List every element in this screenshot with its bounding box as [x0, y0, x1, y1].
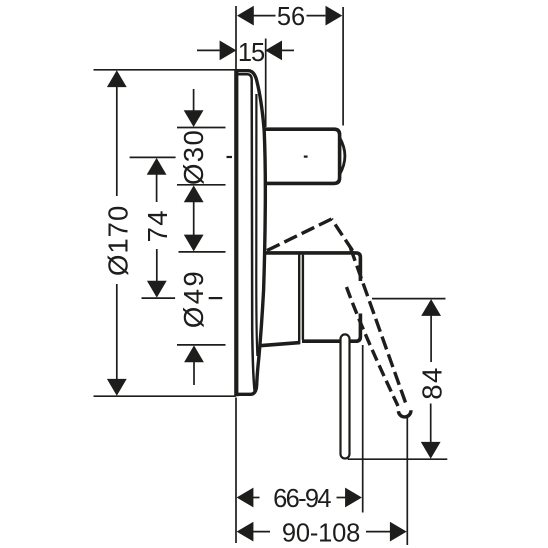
svg-text:74: 74	[142, 209, 173, 242]
dim Ø30: top extension line	[177, 127, 226, 129]
dim Ø49: top extension line	[179, 251, 226, 253]
dim Ø170: top arrowhead	[107, 70, 127, 87]
dim Ø170: bottom extension line	[94, 395, 236, 397]
dim 84: lower tail	[430, 404, 432, 443]
dim 56: right leader	[307, 15, 326, 17]
dim Ø49: top arrowhead (pointing down)	[184, 235, 204, 252]
dim Ø170: top extension line	[94, 69, 236, 71]
dim Ø30: bottom arrowhead (pointing up)	[184, 185, 204, 202]
dim 74: bottom arrowhead (pointing down)	[147, 281, 167, 298]
knob end-cap dome	[340, 138, 345, 175]
dashed lever: tilted hub right edge	[332, 219, 353, 251]
dim Ø49: bottom arrowhead (pointing up)	[184, 345, 204, 362]
svg-text:90-108: 90-108	[282, 519, 360, 547]
dim 84: upper tail	[430, 316, 432, 363]
dim 15: right leader	[282, 49, 294, 51]
dashed lever: tilted hub top edge	[267, 219, 332, 251]
hub top edge (handle body)	[262, 253, 360, 281]
dim 84: top arrowhead (pointing up)	[421, 299, 441, 316]
dim 90-108: right extension line	[406, 415, 408, 545]
escutcheon plate (side profile, wall plate)	[236, 71, 265, 395]
dashed lever: rounded tip	[398, 410, 411, 417]
dim Ø30: top arrowhead (pointing down)	[184, 110, 204, 127]
dim Ø30: bottom extension line	[177, 184, 226, 186]
dim 90-108: left leader	[253, 531, 270, 533]
plate inner plateau edge (top + front line)	[237, 74, 255, 391]
sleeve divider line 2	[302, 255, 304, 340]
dim 74: top extension line (knob centerline)	[130, 156, 176, 158]
svg-text:15: 15	[238, 39, 265, 67]
dim 90-108: right arrowhead	[390, 522, 407, 542]
dim 84: bottom extension line	[348, 458, 448, 460]
plate left face (wall side)	[234, 69, 238, 396]
dim 74: bottom extension line (hub centerline)	[142, 297, 176, 299]
dim 15: left leader	[197, 49, 220, 51]
sleeve bottom edge (cone)	[258, 343, 300, 346]
dim 66-94: right leader	[337, 497, 346, 499]
dim Ø170: dimension line lower segment	[116, 284, 118, 379]
dim 74: lower tail	[156, 249, 158, 282]
dim Ø49: bottom extension line	[177, 344, 226, 346]
dim 66-94: left leader	[253, 497, 260, 499]
dim Ø49: lower arrow tail	[193, 362, 195, 386]
svg-text:56: 56	[277, 3, 305, 31]
svg-text:Ø170: Ø170	[103, 205, 134, 276]
dashed lever: outer bar edge	[351, 248, 406, 403]
svg-text:Ø49: Ø49	[178, 269, 209, 328]
knob centerline tick (inside knob)	[304, 156, 308, 158]
knob centerline tick (outside plate)	[227, 156, 233, 158]
lever (solid, hanging position)	[341, 334, 350, 458]
dim 56: left extension line	[235, 6, 237, 69]
hub centerline tick	[209, 297, 223, 299]
knob (diverter control, side view)	[260, 129, 340, 183]
dim 66-94: left arrowhead	[237, 488, 254, 508]
dim 56: left leader	[253, 15, 275, 17]
dim 56: right arrowhead	[326, 6, 343, 26]
dim 66-94: right extension line	[362, 345, 364, 513]
dim Ø170: bottom arrowhead	[107, 379, 127, 396]
dim 15: right arrowhead (pointing left)	[265, 41, 282, 61]
dim 56: left arrowhead	[237, 6, 254, 26]
svg-text:84: 84	[417, 366, 448, 399]
dim 66-94: right arrowhead	[345, 488, 362, 508]
dim 84: bottom arrowhead (pointing down)	[421, 442, 441, 459]
dashed lever: inner bar edge	[347, 287, 399, 406]
dim Ø30: upper arrow tail	[193, 89, 195, 111]
dim 74: top arrowhead (pointing up)	[147, 158, 167, 175]
handle hub (valve cartridge housing, side view)	[258, 253, 359, 341]
dim 56: right extension line	[342, 7, 344, 126]
hub right edge lower segment and bottom edge	[302, 314, 360, 342]
dim Ø30/Ø49: shared arrow tail	[193, 201, 195, 236]
svg-text:66-94: 66-94	[273, 485, 331, 513]
dim 90-108: right leader	[366, 531, 390, 533]
dim 15: right extension line	[265, 39, 267, 128]
dim 74: upper tail	[156, 174, 158, 202]
dim 84: top extension line	[372, 298, 446, 300]
plate inner step line	[256, 94, 257, 356]
dim 66-94 / 90-108: left extension line	[235, 398, 237, 544]
svg-text:Ø30: Ø30	[178, 129, 209, 185]
dim Ø170: dimension line upper segment	[116, 87, 118, 196]
sleeve divider line 1	[298, 254, 300, 344]
dim 90-108: left arrowhead	[237, 522, 254, 542]
dim 15: left arrowhead (pointing right)	[220, 41, 237, 61]
